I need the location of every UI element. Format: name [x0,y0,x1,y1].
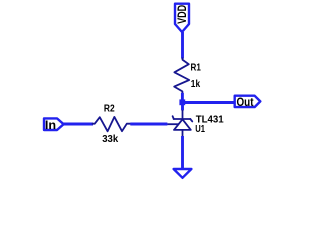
wire U1 anode to ground [181,136,184,169]
wire junction to Out flag [183,101,235,104]
net flag Out [235,95,261,109]
resistor R2 [93,117,131,131]
svg-text:Out: Out [237,95,254,109]
svg-text:VDD: VDD [175,5,189,24]
net flag In [44,118,64,132]
svg-text:1k: 1k [191,79,201,90]
node junction (Out node) [179,99,185,105]
wire R1 to junction [181,93,184,103]
wire R2 to U1 reference pin [130,123,167,126]
wire junction to TL431 cathode [181,103,184,120]
resistor R1 [174,58,189,93]
svg-text:R1: R1 [191,63,202,74]
ground [174,169,192,178]
wire VDD to R1 [181,32,184,59]
wire In flag to R2 [64,123,93,126]
svg-text:In: In [45,118,56,132]
svg-text:U1: U1 [195,124,205,135]
svg-text:R2: R2 [104,104,115,115]
power flag VDD [175,4,189,32]
svg-text:33k: 33k [102,134,119,145]
shunt regulator U1 TL431 [167,116,192,137]
